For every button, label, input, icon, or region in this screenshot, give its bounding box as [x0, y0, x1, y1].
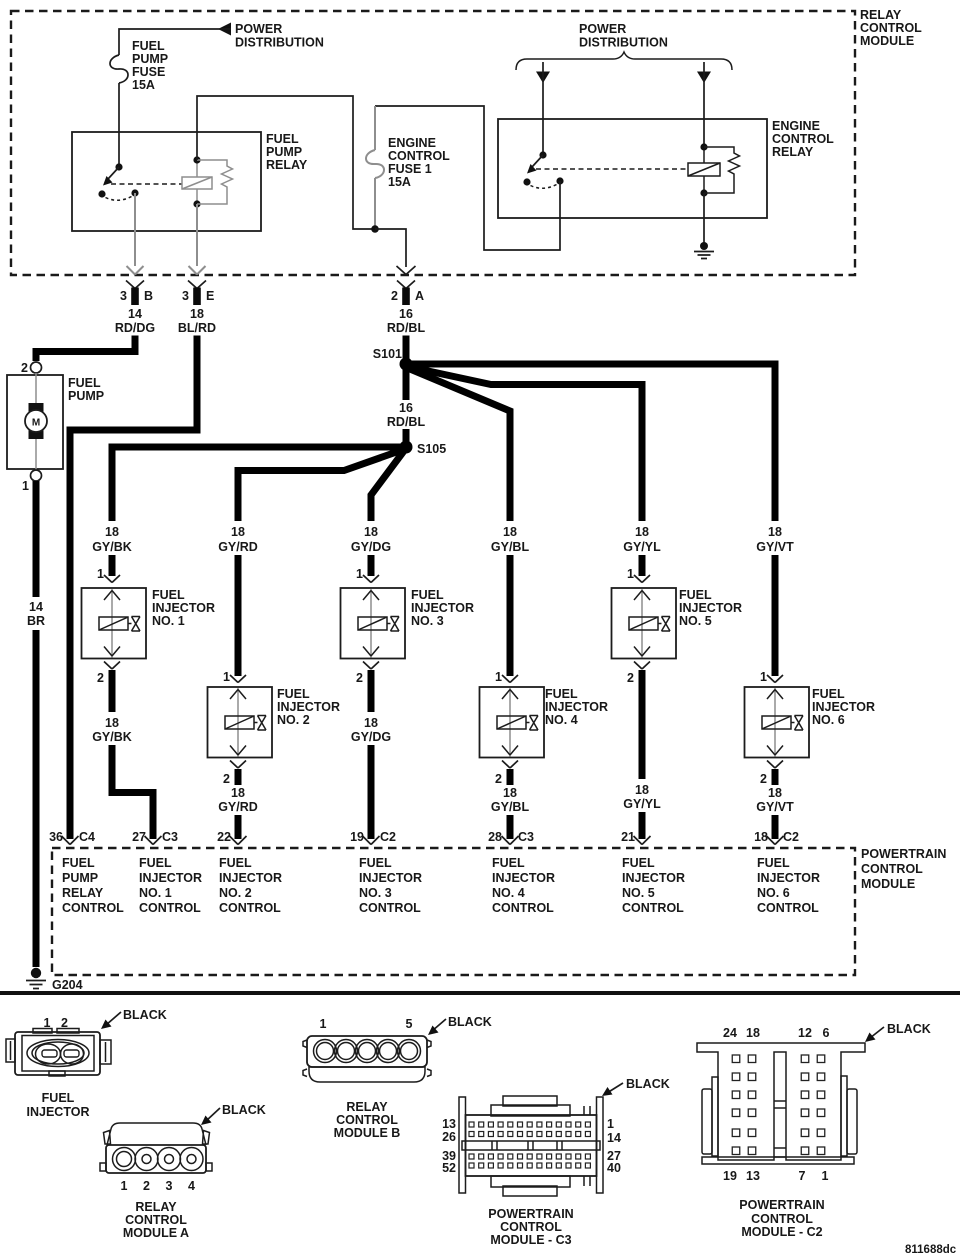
label FUEL INJECTOR NO. 6 CONTROL: [757, 856, 820, 915]
svg-text:18: 18: [364, 525, 378, 539]
svg-text:RELAY: RELAY: [135, 1200, 177, 1214]
svg-text:MODULE A: MODULE A: [123, 1226, 189, 1240]
svg-text:18: 18: [190, 307, 204, 321]
svg-text:2: 2: [391, 289, 398, 303]
svg-text:C3: C3: [162, 830, 178, 844]
svg-text:18: 18: [746, 1026, 760, 1040]
svg-text:18: 18: [635, 525, 649, 539]
svg-text:FUEL: FUEL: [132, 39, 165, 53]
svg-text:RELAY: RELAY: [860, 8, 902, 22]
svg-text:22: 22: [217, 830, 231, 844]
svg-text:CONTROL: CONTROL: [622, 901, 684, 915]
wire into injector 1 pin 1: [97, 555, 120, 583]
svg-text:1: 1: [121, 1179, 128, 1193]
relay control module dashed box: [11, 11, 855, 275]
svg-text:1: 1: [356, 567, 363, 581]
fuel pump relay coil parallel resistor: [197, 160, 233, 204]
svg-text:DISTRIBUTION: DISTRIBUTION: [579, 36, 668, 50]
svg-text:CONTROL: CONTROL: [500, 1220, 562, 1234]
wire label 18 BL/RD: [178, 307, 216, 335]
svg-text:12: 12: [798, 1026, 812, 1040]
svg-text:BLACK: BLACK: [448, 1015, 492, 1029]
svg-text:GY/BK: GY/BK: [92, 730, 132, 744]
svg-text:NO. 5: NO. 5: [622, 886, 655, 900]
ground G204: [26, 968, 83, 992]
svg-text:19: 19: [350, 830, 364, 844]
engine control relay coil: [688, 143, 720, 196]
svg-text:NO. 1: NO. 1: [139, 886, 172, 900]
svg-text:2: 2: [97, 671, 104, 685]
svg-text:24: 24: [723, 1026, 737, 1040]
wire S105 to injector 2 column GY/RD: [238, 449, 405, 521]
wire into injector 3 pin 1: [356, 555, 379, 583]
svg-text:DISTRIBUTION: DISTRIBUTION: [235, 36, 324, 50]
powertrain control module dashed box: [52, 848, 855, 975]
svg-text:E: E: [206, 289, 214, 303]
fuel pump motor M: [25, 373, 47, 470]
svg-text:28: 28: [488, 830, 502, 844]
svg-text:PUMP: PUMP: [62, 871, 98, 885]
svg-text:ENGINE: ENGINE: [388, 136, 436, 150]
wire into injector 4 pin 1: [495, 555, 518, 684]
svg-text:INJECTOR: INJECTOR: [219, 871, 282, 885]
connector pin 2-A: [391, 281, 424, 306]
injector FUEL INJECTOR NO. 3: [341, 588, 474, 659]
injector 1 pin 2 connector: [97, 662, 120, 686]
svg-text:GY/YL: GY/YL: [623, 797, 661, 811]
svg-text:INJECTOR: INJECTOR: [545, 700, 608, 714]
svg-text:POWERTRAIN: POWERTRAIN: [861, 847, 946, 861]
svg-text:18: 18: [768, 786, 782, 800]
svg-text:CONTROL: CONTROL: [861, 862, 923, 876]
node POWER DISTRIBUTION (left feed): [218, 22, 324, 50]
part number 811688dc: [905, 1244, 957, 1256]
label FUEL INJECTOR NO. 3 CONTROL: [359, 856, 422, 915]
svg-text:CONTROL: CONTROL: [139, 901, 201, 915]
wire GY/DG injector 3 to PCM 19-C2: [351, 670, 391, 839]
svg-text:GY/VT: GY/VT: [756, 800, 794, 814]
svg-text:A: A: [415, 289, 424, 303]
svg-text:INJECTOR: INJECTOR: [152, 601, 215, 615]
relay control module A connector drawing: [100, 1103, 266, 1240]
wire engine relay output to engine control fuse: [375, 106, 560, 250]
svg-text:INJECTOR: INJECTOR: [139, 871, 202, 885]
svg-text:FUEL: FUEL: [622, 856, 655, 870]
svg-text:18: 18: [503, 786, 517, 800]
svg-text:CONTROL: CONTROL: [751, 1212, 813, 1226]
svg-text:13: 13: [442, 1117, 456, 1131]
fuel pump relay actuation dashed line: [111, 183, 182, 185]
wire S105 to injector 3 column GY/DG: [371, 450, 405, 522]
svg-text:S105: S105: [417, 442, 446, 456]
svg-text:15A: 15A: [132, 78, 155, 92]
svg-text:2: 2: [21, 361, 28, 375]
wire label 16 RD/BL: [387, 307, 426, 335]
wire S101 to injector 4 column GY/BL: [404, 367, 510, 522]
engine control relay coil parallel resistor: [704, 147, 740, 193]
svg-text:27: 27: [132, 830, 146, 844]
svg-text:FUEL: FUEL: [757, 856, 790, 870]
svg-text:RELAY: RELAY: [62, 886, 104, 900]
fuse ENGINE CONTROL FUSE 1 15A (gray): [366, 106, 450, 229]
power feed right branch arrow: [697, 62, 711, 147]
svg-text:BLACK: BLACK: [222, 1103, 266, 1117]
svg-text:ENGINE: ENGINE: [772, 119, 820, 133]
svg-text:GY/RD: GY/RD: [218, 540, 258, 554]
connector V at 21: [621, 830, 650, 845]
svg-text:CONTROL: CONTROL: [359, 901, 421, 915]
svg-text:M: M: [32, 418, 40, 429]
svg-text:13: 13: [746, 1169, 760, 1183]
svg-text:CONTROL: CONTROL: [492, 901, 554, 915]
wire label 18 GY/BL: [491, 525, 530, 554]
connector V at 28-C3: [488, 830, 534, 845]
svg-text:18: 18: [231, 525, 245, 539]
wire into injector 5 pin 1: [627, 555, 650, 583]
svg-text:MODULE B: MODULE B: [334, 1126, 401, 1140]
wire fuel pump ground lower segment: [33, 630, 40, 967]
svg-text:18: 18: [635, 783, 649, 797]
wire label 18 GY/VT: [756, 525, 794, 554]
wire S101 to injector 5 column GY/YL: [405, 366, 642, 521]
svg-text:NO. 4: NO. 4: [545, 713, 578, 727]
svg-text:18: 18: [105, 525, 119, 539]
svg-text:FUEL: FUEL: [139, 856, 172, 870]
svg-text:FUEL: FUEL: [42, 1091, 75, 1105]
svg-text:2: 2: [627, 671, 634, 685]
fuel pump relay coil: [182, 156, 212, 207]
svg-text:GY/YL: GY/YL: [623, 540, 661, 554]
svg-text:PUMP: PUMP: [266, 145, 302, 159]
svg-text:CONTROL: CONTROL: [336, 1113, 398, 1127]
svg-text:6: 6: [823, 1026, 830, 1040]
svg-text:52: 52: [442, 1161, 456, 1175]
wire GY/BK injector 1 to PCM 27-C3: [92, 670, 153, 839]
wire GY/VT injector 6 to PCM 18-C2: [756, 769, 794, 839]
splice S101: [373, 347, 413, 371]
ground (engine control relay coil): [694, 193, 714, 259]
svg-text:1: 1: [495, 670, 502, 684]
svg-text:FUEL: FUEL: [545, 687, 578, 701]
svg-text:PUMP: PUMP: [68, 389, 104, 403]
svg-text:C4: C4: [79, 830, 95, 844]
svg-text:RD/BL: RD/BL: [387, 415, 426, 429]
svg-text:26: 26: [442, 1130, 456, 1144]
svg-text:INJECTOR: INJECTOR: [27, 1105, 90, 1119]
svg-text:FUEL: FUEL: [359, 856, 392, 870]
svg-text:RD/DG: RD/DG: [115, 321, 155, 335]
svg-text:RELAY: RELAY: [772, 145, 814, 159]
svg-text:INJECTOR: INJECTOR: [277, 700, 340, 714]
svg-text:INJECTOR: INJECTOR: [757, 871, 820, 885]
fuel pump pin 2: [21, 361, 41, 375]
relay K1 FUEL PUMP RELAY box: [72, 132, 308, 231]
svg-text:2: 2: [223, 772, 230, 786]
svg-text:MODULE: MODULE: [861, 877, 915, 891]
svg-text:FUSE 1: FUSE 1: [388, 162, 432, 176]
svg-text:GY/RD: GY/RD: [218, 800, 258, 814]
svg-text:RD/BL: RD/BL: [387, 321, 426, 335]
splice S105: [400, 441, 447, 457]
svg-text:C2: C2: [783, 830, 799, 844]
svg-text:1: 1: [822, 1169, 829, 1183]
svg-text:2: 2: [495, 772, 502, 786]
wire GY/YL injector 5 to PCM 21: [623, 670, 661, 839]
svg-text:INJECTOR: INJECTOR: [359, 871, 422, 885]
wire label 18 GY/YL: [623, 525, 661, 554]
svg-text:FUEL: FUEL: [277, 687, 310, 701]
svg-text:18: 18: [768, 525, 782, 539]
svg-text:BL/RD: BL/RD: [178, 321, 216, 335]
label FUEL INJECTOR NO. 2 CONTROL: [219, 856, 282, 915]
svg-text:FUEL: FUEL: [492, 856, 525, 870]
injector 4 pin 2 connector: [495, 761, 518, 787]
svg-text:INJECTOR: INJECTOR: [812, 700, 875, 714]
powertrain control module C2 connector drawing: [697, 1022, 931, 1239]
relay K2 ENGINE CONTROL RELAY box: [498, 119, 834, 218]
wire into injector 2 pin 1: [223, 555, 246, 684]
wire label 14 BR: [27, 600, 45, 628]
relay control module B connector drawing: [303, 1015, 492, 1140]
svg-text:CONTROL: CONTROL: [388, 149, 450, 163]
svg-text:G204: G204: [52, 978, 83, 992]
svg-text:POWERTRAIN: POWERTRAIN: [739, 1198, 824, 1212]
svg-text:18: 18: [364, 716, 378, 730]
svg-text:GY/BK: GY/BK: [92, 540, 132, 554]
svg-text:CONTROL: CONTROL: [125, 1213, 187, 1227]
svg-text:7: 7: [799, 1169, 806, 1183]
wire label 18 GY/DG: [351, 525, 391, 554]
wire label 18 GY/BK: [92, 525, 132, 554]
wire relay output B to connector (gray): [127, 193, 144, 275]
svg-text:INJECTOR: INJECTOR: [492, 871, 555, 885]
fuse FUEL PUMP FUSE 15A: [110, 39, 168, 92]
svg-text:NO. 5: NO. 5: [679, 614, 712, 628]
wire RD/DG to fuel pump pin 2: [36, 336, 135, 362]
fuel pump relay switch: [98, 163, 138, 200]
wire label 18 GY/RD: [218, 525, 258, 554]
svg-text:S101: S101: [373, 347, 402, 361]
wire fuel pump ground upper segment: [33, 481, 40, 597]
wire fuse to fuel pump relay switch: [118, 83, 120, 167]
svg-text:CONTROL: CONTROL: [772, 132, 834, 146]
svg-text:4: 4: [188, 1179, 195, 1193]
svg-text:GY/VT: GY/VT: [756, 540, 794, 554]
injector FUEL INJECTOR NO. 4: [480, 687, 608, 758]
svg-text:16: 16: [399, 307, 413, 321]
svg-text:5: 5: [406, 1017, 413, 1031]
wire label 14 RD/DG: [115, 307, 155, 335]
svg-text:1: 1: [760, 670, 767, 684]
svg-text:FUEL: FUEL: [266, 132, 299, 146]
injector 3 pin 2 connector: [356, 662, 379, 686]
svg-text:PUMP: PUMP: [132, 52, 168, 66]
svg-text:14: 14: [29, 600, 43, 614]
svg-text:FUEL: FUEL: [62, 856, 95, 870]
svg-text:18: 18: [105, 716, 119, 730]
node POWER DISTRIBUTION (top brace): [516, 22, 732, 70]
svg-text:GY/BL: GY/BL: [491, 800, 530, 814]
svg-text:MODULE - C2: MODULE - C2: [741, 1225, 822, 1239]
wire BL/RD to PCM 36-C4: [70, 336, 197, 840]
injector FUEL INJECTOR NO. 6: [745, 687, 875, 758]
svg-text:40: 40: [607, 1161, 621, 1175]
wire relay coil E to connector (gray): [189, 204, 206, 275]
junction dot fuse/coil node: [371, 225, 379, 233]
svg-text:15A: 15A: [388, 175, 411, 189]
svg-text:2: 2: [143, 1179, 150, 1193]
svg-text:1: 1: [627, 567, 634, 581]
svg-text:FUEL: FUEL: [68, 376, 101, 390]
svg-text:FUSE: FUSE: [132, 65, 165, 79]
svg-text:19: 19: [723, 1169, 737, 1183]
svg-text:NO. 3: NO. 3: [411, 614, 444, 628]
svg-text:NO. 6: NO. 6: [812, 713, 845, 727]
svg-text:1: 1: [320, 1017, 327, 1031]
svg-text:21: 21: [621, 830, 635, 844]
svg-text:RELAY: RELAY: [346, 1100, 388, 1114]
engine control relay switch: [523, 151, 563, 188]
svg-text:POWER: POWER: [579, 22, 626, 36]
svg-text:MODULE: MODULE: [860, 34, 914, 48]
svg-text:C3: C3: [518, 830, 534, 844]
connector pin 3-E: [182, 281, 214, 306]
svg-text:14: 14: [607, 1131, 621, 1145]
svg-text:3: 3: [120, 289, 127, 303]
label RELAY CONTROL MODULE: [860, 8, 922, 48]
wire from power distribution to fuel pump fuse: [119, 29, 231, 55]
connector V at 27-C3: [132, 830, 178, 845]
wire node to connector A: [375, 229, 416, 275]
svg-text:MODULE - C3: MODULE - C3: [490, 1233, 571, 1247]
svg-text:16: 16: [399, 401, 413, 415]
svg-text:1: 1: [607, 1117, 614, 1131]
svg-text:NO. 2: NO. 2: [219, 886, 252, 900]
separator bar: [0, 991, 960, 995]
svg-text:CONTROL: CONTROL: [860, 21, 922, 35]
svg-text:NO. 3: NO. 3: [359, 886, 392, 900]
wire GY/RD injector 2 to PCM 22: [218, 769, 258, 839]
svg-text:INJECTOR: INJECTOR: [679, 601, 742, 615]
svg-text:1: 1: [223, 670, 230, 684]
injector FUEL INJECTOR NO. 1: [82, 588, 215, 659]
svg-text:FUEL: FUEL: [219, 856, 252, 870]
wire S105 to injector 1 column GY/BK: [112, 447, 404, 521]
svg-text:1: 1: [22, 479, 29, 493]
svg-text:NO. 1: NO. 1: [152, 614, 185, 628]
svg-text:2: 2: [760, 772, 767, 786]
svg-text:BR: BR: [27, 614, 45, 628]
svg-text:FUEL: FUEL: [152, 588, 185, 602]
connector V at 18-C2: [754, 830, 799, 845]
svg-text:RELAY: RELAY: [266, 158, 308, 172]
svg-text:FUEL: FUEL: [812, 687, 845, 701]
svg-text:GY/BL: GY/BL: [491, 540, 530, 554]
fuel injector connector drawing: [6, 1008, 167, 1119]
svg-text:18: 18: [754, 830, 768, 844]
svg-text:INJECTOR: INJECTOR: [411, 601, 474, 615]
svg-text:POWER: POWER: [235, 22, 282, 36]
injector FUEL INJECTOR NO. 5: [612, 588, 742, 659]
svg-text:811688dc: 811688dc: [905, 1244, 957, 1256]
svg-text:36: 36: [49, 830, 63, 844]
injector 2 pin 2 connector: [223, 761, 246, 787]
svg-text:3: 3: [166, 1179, 173, 1193]
svg-text:1: 1: [97, 567, 104, 581]
svg-text:FUEL: FUEL: [411, 588, 444, 602]
svg-text:GY/DG: GY/DG: [351, 730, 391, 744]
wire label 16 RD/BL (below S101): [387, 401, 426, 429]
fuel pump box: [7, 375, 104, 469]
svg-text:GY/DG: GY/DG: [351, 540, 391, 554]
label FUEL INJECTOR NO. 5 CONTROL: [622, 856, 685, 915]
wire fuel pump relay coil top to engine fuse node: [197, 96, 375, 229]
wire S101 to injector 6 column GY/VT: [408, 364, 775, 521]
wire GY/BL injector 4 to PCM 28-C3: [491, 769, 530, 839]
svg-text:INJECTOR: INJECTOR: [622, 871, 685, 885]
connector V at 19-C2: [350, 830, 396, 845]
label FUEL INJECTOR NO. 1 CONTROL: [139, 856, 202, 915]
engine control relay actuation dashed line: [536, 168, 687, 170]
connector V at 36-C4: [49, 830, 95, 845]
svg-text:CONTROL: CONTROL: [62, 901, 124, 915]
wire RD/BL lower segment to S105: [403, 429, 410, 447]
power feed left branch arrow: [536, 62, 550, 155]
svg-text:NO. 2: NO. 2: [277, 713, 310, 727]
svg-text:CONTROL: CONTROL: [219, 901, 281, 915]
injector 6 pin 2 connector: [760, 761, 783, 787]
injector FUEL INJECTOR NO. 2: [208, 687, 340, 758]
wire RD/BL upper segment: [403, 336, 410, 401]
wire into injector 6 pin 1: [760, 555, 783, 684]
svg-text:14: 14: [128, 307, 142, 321]
svg-text:NO. 6: NO. 6: [757, 886, 790, 900]
svg-text:18: 18: [231, 786, 245, 800]
label POWERTRAIN CONTROL MODULE: [861, 847, 946, 891]
fuel pump pin 1: [22, 470, 41, 493]
svg-text:NO. 4: NO. 4: [492, 886, 525, 900]
svg-text:18: 18: [503, 525, 517, 539]
svg-text:2: 2: [356, 671, 363, 685]
svg-text:3: 3: [182, 289, 189, 303]
svg-text:C2: C2: [380, 830, 396, 844]
connector pin 3-B: [120, 281, 153, 306]
svg-text:B: B: [144, 289, 153, 303]
svg-text:BLACK: BLACK: [887, 1022, 931, 1036]
label FUEL INJECTOR NO. 4 CONTROL: [492, 856, 555, 915]
svg-text:FUEL: FUEL: [679, 588, 712, 602]
svg-text:BLACK: BLACK: [123, 1008, 167, 1022]
svg-text:BLACK: BLACK: [626, 1077, 670, 1091]
label FUEL PUMP RELAY CONTROL: [62, 856, 124, 915]
svg-text:POWERTRAIN: POWERTRAIN: [488, 1207, 573, 1221]
injector 5 pin 2 connector: [627, 662, 650, 686]
connector V at 22: [217, 830, 246, 845]
powertrain control module C3 connector drawing: [442, 1077, 670, 1247]
svg-text:CONTROL: CONTROL: [757, 901, 819, 915]
